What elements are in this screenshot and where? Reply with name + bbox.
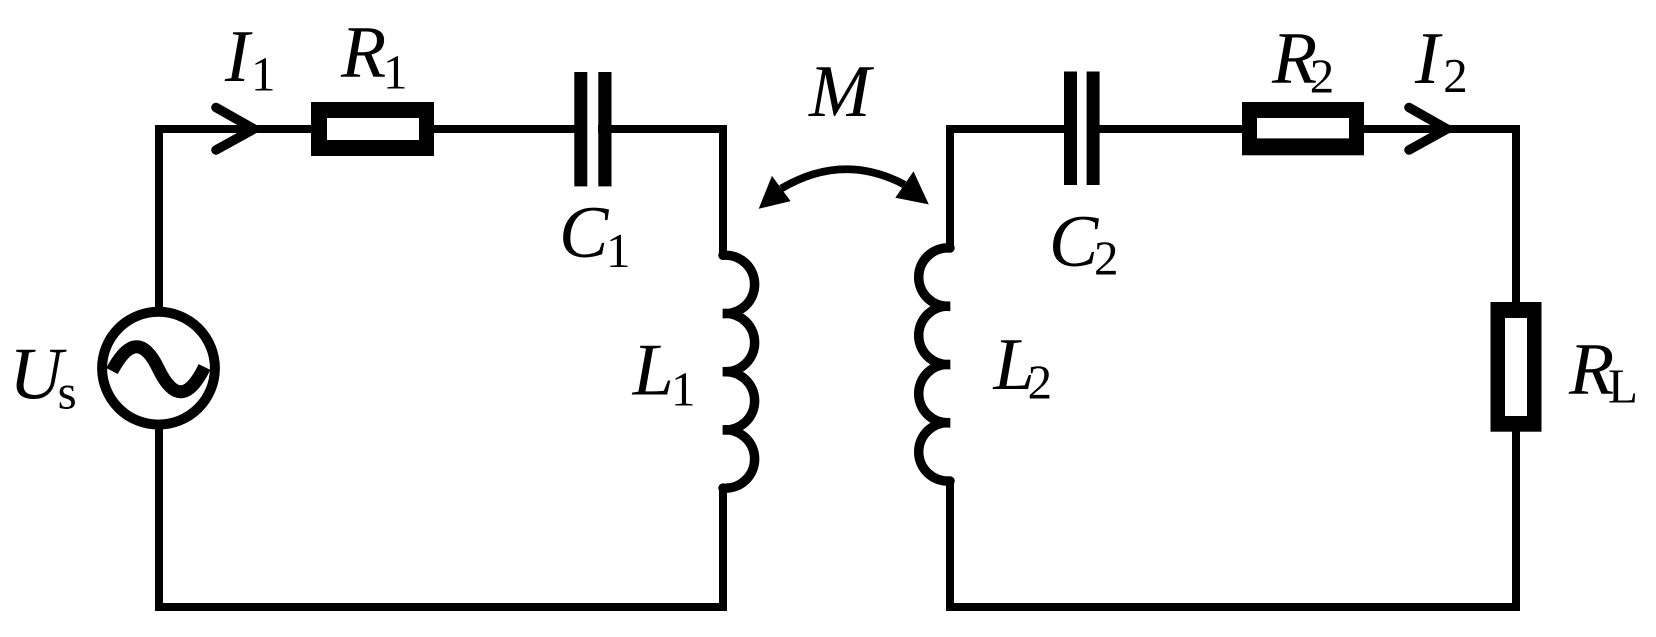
svg-text:2: 2 <box>1310 49 1335 104</box>
svg-text:C: C <box>559 192 610 274</box>
svg-text:C: C <box>1049 201 1100 283</box>
svg-text:2: 2 <box>1028 355 1053 410</box>
svg-text:L: L <box>632 329 674 411</box>
svg-text:I: I <box>1414 18 1443 100</box>
svg-text:M: M <box>808 51 875 133</box>
svg-text:1: 1 <box>606 223 631 278</box>
svg-text:2: 2 <box>1443 48 1468 103</box>
svg-text:1: 1 <box>671 362 696 417</box>
svg-text:s: s <box>58 365 77 420</box>
svg-text:1: 1 <box>383 45 408 100</box>
svg-text:2: 2 <box>1094 230 1119 285</box>
svg-text:I: I <box>224 16 253 98</box>
svg-text:R: R <box>340 12 386 94</box>
svg-text:1: 1 <box>251 46 276 101</box>
svg-text:L: L <box>1608 359 1638 414</box>
